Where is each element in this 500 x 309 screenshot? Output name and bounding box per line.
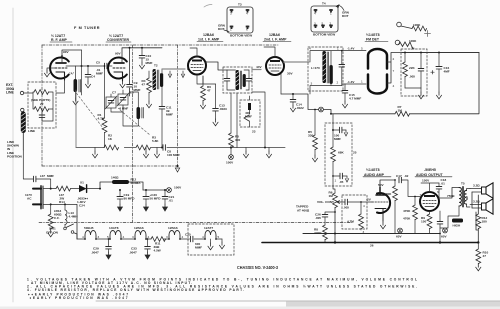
T4 core: [327, 52, 328, 83]
V7 plate bar: [424, 195, 435, 197]
V4 screen stub: [264, 47, 275, 57]
V2 grid dashes: [113, 67, 125, 69]
svg-text:X1: X1: [80, 181, 84, 185]
V1 cathode return wire: [56, 80, 65, 93]
wire plug bottom: [43, 204, 77, 239]
capacitor in matching box: [39, 115, 45, 117]
T2 bottom return wire: [161, 87, 163, 148]
section divider dash-dot x=130: [132, 45, 134, 222]
svg-text:7: 7: [393, 69, 395, 73]
ground stub at x=146: [143, 148, 148, 158]
label V4 12BA6 2nd I.F. AMP: [263, 33, 291, 42]
T5 secondary top wire to speakers: [467, 189, 470, 191]
svg-text:MMF: MMF: [195, 246, 202, 250]
T3 secondary return wire: [252, 92, 265, 148]
chassis dash-dot line y=222.5: [39, 222, 352, 224]
svg-text:LINE: LINE: [6, 91, 14, 95]
svg-text:90V: 90V: [63, 50, 69, 54]
svg-text:2: 2: [337, 81, 339, 85]
wire filter to B+ rail: [129, 182, 143, 190]
svg-text:470K: 470K: [384, 192, 392, 196]
svg-text:5: 5: [322, 22, 324, 26]
svg-text:100K: 100K: [409, 39, 417, 43]
svg-text:4MF: 4MF: [444, 70, 450, 74]
svg-text:22: 22: [40, 102, 44, 106]
V6 cathode: [375, 209, 386, 222]
cathode bypass capacitor: [437, 211, 443, 234]
svg-text:1M: 1M: [329, 194, 334, 198]
V7 cathode: [425, 206, 434, 208]
label -2V and pin 4: [363, 198, 372, 209]
svg-text:LINE: LINE: [28, 129, 35, 133]
svg-text:AUDIO OUTPUT: AUDIO OUTPUT: [416, 173, 444, 177]
B- bus junction dots: [334, 241, 336, 243]
T4 bottom lead to diode: [342, 83, 366, 85]
svg-text:3: 3: [132, 235, 134, 239]
svg-text:100V: 100V: [174, 186, 182, 190]
svg-text:60V: 60V: [441, 235, 447, 239]
sub-box component: [245, 103, 252, 118]
V6 cathode ground: [380, 221, 385, 229]
ground stub at x=246: [243, 148, 248, 158]
capacitor C15 4.7MMF: [342, 84, 361, 108]
svg-text:3: 3: [311, 82, 313, 86]
svg-text:1st. I. F. AMP: 1st. I. F. AMP: [198, 38, 220, 42]
svg-text:.05: .05: [339, 180, 344, 184]
svg-text:30V: 30V: [287, 72, 293, 76]
junction dot rectifier out: [99, 188, 101, 190]
svg-text:C17: C17: [396, 174, 402, 178]
svg-text:4: 4: [309, 47, 311, 51]
svg-text:MMF: MMF: [47, 174, 54, 178]
svg-text:90V: 90V: [115, 52, 121, 56]
heater chain end ground: [219, 239, 224, 249]
antenna terminal upper: [20, 91, 23, 94]
resistor 470K plate load: [384, 179, 397, 233]
label C24 1400V: [77, 197, 88, 208]
svg-text:2: 2: [393, 57, 395, 61]
V1 grid dashes: [55, 67, 67, 69]
svg-text:-50EH5: -50EH5: [424, 168, 436, 172]
svg-text:12BA6: 12BA6: [269, 33, 280, 37]
svg-text:4: 4: [314, 12, 316, 16]
svg-text:HIGH: HIGH: [453, 224, 462, 228]
svg-text:F M TUNER: F M TUNER: [74, 26, 100, 30]
V5 pin 2 wire: [387, 53, 479, 84]
svg-text:68K: 68K: [338, 151, 344, 155]
resistor R2 1K in rail: [104, 134, 119, 150]
resistor 68K: [331, 147, 345, 176]
svg-text:12BA6: 12BA6: [168, 226, 178, 230]
tube V3 1st IF envelope: [188, 57, 206, 75]
svg-text:BOTTOM VIEW: BOTTOM VIEW: [313, 33, 335, 37]
ground stub at x=157: [154, 148, 159, 158]
pot wiper arrow: [337, 201, 341, 204]
power plug blades: [33, 186, 43, 209]
V7 plate to T5: [439, 188, 459, 199]
stray scan mark top left of T3: [204, 5, 212, 8]
T4 tuning capacitor: [339, 50, 345, 86]
svg-text:1: 1: [335, 179, 337, 183]
wire terminal upper to matching box: [24, 92, 33, 94]
svg-text:4: 4: [123, 235, 125, 239]
ground at V1 grid: [44, 70, 49, 77]
audio ground bus: [303, 233, 440, 235]
svg-text:4. FUSIBLE RESISTOR, REPLACE: 4. FUSIBLE RESISTOR, REPLACE ONLY WITH W…: [27, 288, 244, 292]
heater V3 12BA6: [132, 226, 150, 240]
svg-text:4.5W: 4.5W: [154, 249, 161, 253]
wire terminal lower to link coil: [22, 112, 24, 114]
test point 100V on rail: [167, 186, 183, 193]
svg-text:12BA6: 12BA6: [203, 33, 214, 37]
svg-text:3: 3: [230, 12, 232, 16]
svg-text:2: 2: [330, 22, 332, 26]
resistor in matching box upper: [34, 90, 49, 95]
svg-text:100K: 100K: [413, 23, 421, 27]
heater chain wire: [77, 238, 222, 240]
audio coupling dashed box: [342, 195, 367, 229]
T3 return to rail: [236, 93, 238, 148]
junction dots bottom wire: [50, 203, 52, 205]
link coil L1 (bold hatched): [21, 112, 26, 134]
svg-text:-1.3V: -1.3V: [347, 80, 355, 84]
arrow symbol in sub-box: [244, 115, 249, 121]
converter top bus: [122, 48, 162, 96]
V6 plate wire to coupling: [380, 180, 395, 187]
heater center tap ground: [208, 239, 213, 250]
V7 B+ feed from rail: [421, 183, 439, 192]
svg-text:12BA6: 12BA6: [134, 226, 144, 230]
heater V6 14GT8: [107, 226, 125, 240]
T4 grn dot label with arrow: [336, 4, 350, 18]
wire V1 plate up and over to bus: [62, 50, 82, 63]
test point 100V below R5: [226, 148, 234, 165]
resistor R4 47: [142, 71, 152, 108]
capacitor .005: [409, 53, 424, 89]
wire link coil bottom: [22, 133, 24, 150]
svg-text:.0047: .0047: [129, 250, 137, 254]
label LINK SHOWN IN LINE POSITION: [7, 140, 23, 158]
resistor 330 muting divider: [308, 109, 318, 162]
svg-text:100V: 100V: [226, 161, 234, 165]
svg-text:CONVERTER: CONVERTER: [107, 38, 129, 42]
V2 cathode: [114, 72, 123, 81]
resistor 100K 24 diagonal: [399, 39, 418, 51]
svg-text:½14GT8: ½14GT8: [366, 33, 380, 37]
oscillator coil hatched: [137, 107, 144, 119]
svg-text:1: 1: [361, 80, 363, 84]
svg-text:DOT: DOT: [342, 14, 349, 18]
choke L14 4.4MH: [65, 204, 78, 224]
V4 pin dots: [283, 61, 285, 63]
limiter dashed sub-box: [240, 100, 260, 127]
wire RF bus to converter grid: [66, 65, 112, 67]
coil L2 grid coil with core: [74, 79, 81, 92]
svg-text:22K: 22K: [409, 66, 415, 70]
T4 internal wires and pins: [310, 51, 342, 94]
resistor R7 1M line: [331, 53, 479, 114]
test point 60V near pot: [396, 228, 402, 238]
capacitor C33 .0047: [129, 238, 150, 259]
svg-text:.005: .005: [343, 206, 349, 210]
volume pot R6 1M: [317, 191, 337, 243]
svg-text:.0033: .0033: [219, 107, 227, 111]
svg-text:3: 3: [314, 22, 316, 26]
muting dashed box: [325, 123, 352, 186]
svg-text:180: 180: [482, 220, 487, 224]
svg-text:80 MFD: 80 MFD: [124, 197, 136, 201]
capacitor C4: [85, 66, 95, 88]
resistor 470K grid return: [403, 196, 417, 234]
svg-text:140Ω: 140Ω: [111, 176, 119, 180]
small down arrow on grid lead 2: [181, 71, 185, 78]
svg-text:MMF: MMF: [173, 153, 180, 157]
T3 primary coil: [236, 70, 240, 90]
svg-text:4: 4: [363, 204, 365, 208]
capacitor C14 .0022: [290, 94, 304, 112]
fusible resistor R12 140ohm (solid bar): [111, 176, 141, 186]
T4 secondary coil: [329, 65, 332, 84]
svg-text:7: 7: [420, 193, 422, 197]
junction dot x333: [332, 129, 334, 131]
svg-text:T4: T4: [322, 2, 326, 6]
svg-text:4.7 MMF: 4.7 MMF: [349, 97, 361, 101]
svg-text:POSITION: POSITION: [7, 154, 23, 158]
svg-text:½14GT8: ½14GT8: [366, 168, 380, 172]
wire audio bus down to B-: [439, 234, 441, 243]
svg-text:DOT: DOT: [218, 27, 225, 31]
T4 primary coil: [322, 51, 326, 83]
test point 60V: [441, 228, 447, 238]
T5 primary bottom wire: [440, 206, 459, 228]
line bypass capacitor 47MMF: [23, 150, 54, 189]
svg-text:50V: 50V: [378, 183, 384, 187]
svg-text:C4: C4: [91, 75, 95, 79]
svg-text:4.7K: 4.7K: [98, 117, 105, 121]
capacitor C9 10MMF series: [127, 81, 141, 92]
component HIGH (solid): [452, 219, 463, 228]
ground stub at x=269: [266, 148, 271, 158]
resistor R10 47: [476, 243, 489, 271]
label V7 50EH5 AUDIO OUTPUT: [415, 168, 452, 177]
V6 grid dashes: [372, 201, 388, 203]
wire rectifier to filter: [87, 182, 112, 189]
svg-text:MMF: MMF: [166, 113, 173, 117]
svg-text:FM DET: FM DET: [366, 38, 380, 42]
transformer T2 primary coil: [153, 69, 157, 90]
svg-text:.0047: .0047: [91, 250, 99, 254]
svg-text:.02: .02: [404, 174, 409, 178]
capacitor C29 .0047: [91, 238, 111, 259]
svg-text:4: 4: [82, 235, 84, 239]
sub-box wire: [249, 96, 251, 127]
FM tuner dashed enclosure top edge: [42, 44, 278, 46]
svg-text:4: 4: [246, 12, 248, 16]
notes text block: [27, 278, 417, 301]
svg-text:470K: 470K: [403, 209, 411, 213]
svg-text:47: 47: [483, 254, 487, 258]
coupling capacitor C17: [396, 174, 420, 197]
svg-text:47: 47: [207, 89, 211, 93]
muting line continues to volume pot: [333, 176, 335, 193]
svg-text:14GT8: 14GT8: [109, 226, 119, 230]
resistor R7 1M: [395, 105, 410, 116]
V1 cathode: [56, 72, 65, 80]
T3 left capacitor: [224, 70, 235, 90]
speaker bus vertical: [472, 192, 478, 243]
label C5 .01 MMF: [96, 61, 103, 76]
svg-text:3: 3: [98, 235, 100, 239]
svg-text:24: 24: [411, 47, 415, 51]
tube V5 upper diode (bold staple): [368, 49, 387, 69]
tube V2 converter envelope: [108, 57, 127, 78]
svg-text:OFF-ON: OFF-ON: [46, 230, 59, 234]
svg-text:47: 47: [142, 83, 146, 87]
svg-text:VOL. CONT.: VOL. CONT.: [317, 200, 334, 204]
wire test point to muting network: [323, 110, 331, 114]
small down arrow on grid lead 1: [168, 71, 172, 78]
capacitor C8 in rail: [163, 145, 180, 157]
V7 pin dots: [429, 191, 431, 193]
svg-text:MMF: MMF: [146, 61, 153, 65]
svg-text:2nd. I. F. AMP: 2nd. I. F. AMP: [264, 38, 287, 42]
svg-text:750Ω: 750Ω: [447, 194, 455, 198]
T3 secondary coil: [243, 74, 246, 87]
resistor 180 in speaker return: [476, 214, 488, 229]
label EXT 300 ohm line: [6, 83, 15, 95]
B+ rail dots: [162, 189, 164, 191]
svg-text:C25: C25: [185, 233, 191, 237]
label V2 1/2 12AT7 CONVERTER: [106, 34, 131, 42]
wire bus down to L2: [76, 50, 82, 98]
V3 pin dots: [196, 56, 198, 58]
T4 pin numbers: [309, 47, 339, 86]
ground below box: [418, 88, 423, 99]
svg-text:4: 4: [393, 84, 395, 88]
svg-text:26: 26: [370, 244, 374, 248]
transformer T2 secondary coil: [160, 73, 163, 87]
svg-text:4: 4: [182, 235, 184, 239]
detector output line: [281, 94, 319, 110]
capacitor C11 39MMF: [159, 106, 173, 117]
svg-text:3.2Ω: 3.2Ω: [473, 200, 480, 204]
V3 cathode: [193, 70, 201, 72]
section divider dash-dot x=178: [177, 45, 179, 166]
svg-text:50EH5: 50EH5: [84, 226, 94, 230]
wire fuse to rectifier: [70, 188, 79, 190]
detector rail y=52.5: [402, 52, 479, 54]
label V5 1/2 14GT8 FM DET: [365, 33, 388, 42]
wire V2 cathode down to oscillator: [111, 90, 138, 126]
junction dots on RF bus: [81, 65, 83, 67]
tuning gang dashed link line 2: [120, 110, 150, 135]
svg-text:150: 150: [421, 220, 426, 224]
T2 secondary top wire (grid lead, shaded): [162, 69, 185, 73]
V4 cathode: [271, 70, 279, 72]
svg-text:♦47: ♦47: [40, 174, 45, 178]
V4 plate bar: [270, 60, 280, 62]
tube V5 lower diode (bold staple): [368, 75, 387, 94]
svg-text:25: 25: [353, 151, 357, 155]
svg-text:.0022: .0022: [296, 106, 304, 110]
V4 grids dashed: [269, 65, 281, 68]
ground under L2: [73, 98, 78, 105]
tap capacitor C26 .005: [315, 211, 336, 220]
svg-text:100: 100: [167, 153, 172, 157]
capacitor C13 .0033: [213, 84, 227, 126]
speaker upper: [470, 183, 493, 198]
capacitor C18 .01: [436, 178, 446, 198]
svg-text:12AT7: 12AT7: [204, 226, 213, 230]
svg-text:150V: 150V: [422, 179, 430, 183]
tube V4 2nd IF envelope: [266, 57, 284, 75]
resistor R8 220ohm: [314, 217, 327, 243]
resistor 22K: [403, 53, 416, 89]
svg-text:.01: .01: [169, 199, 174, 203]
svg-text:5: 5: [361, 47, 363, 51]
svg-text:6: 6: [246, 28, 248, 32]
svg-text:5.8K: 5.8K: [152, 139, 159, 143]
svg-text:"A": "A": [69, 72, 75, 76]
V3 plate wire to T3: [206, 62, 227, 70]
T3 secondary lead to V4 (shaded): [252, 69, 261, 71]
oscillator trimmer box 2: [117, 91, 134, 111]
rail junction dots: [230, 146, 232, 148]
V3 grids dashed: [191, 65, 203, 68]
svg-text:1: 1: [330, 12, 332, 16]
switch SW1 OFF-ON: [46, 224, 74, 234]
oscillator trimmer box 1: [105, 91, 117, 110]
svg-text:1: 1: [337, 47, 339, 51]
scan page left edge line: [12, 8, 14, 302]
B- heavy bus: [262, 242, 478, 244]
label V3 12BA6 1st I.F. AMP: [197, 33, 223, 42]
svg-text:AT 400Ω: AT 400Ω: [297, 208, 310, 212]
svg-text:3.2Ω: 3.2Ω: [473, 184, 480, 188]
antenna terminal lower: [21, 108, 24, 111]
V7 cathode resistor: [421, 211, 432, 234]
V2 plate: [114, 62, 124, 64]
resistor R1 4.7K: [98, 65, 107, 147]
svg-text:C24: C24: [79, 204, 85, 208]
V5 pin 7 wire: [393, 69, 395, 88]
label TAPPED AT 400ohm: [296, 205, 310, 213]
T5 secondary coil: [464, 191, 466, 205]
top bus junction dots: [129, 47, 131, 49]
FM tuner dashed enclosure bottom edge: [42, 165, 178, 167]
svg-text:.01: .01: [441, 182, 446, 186]
pot terminal circle lower: [395, 40, 400, 45]
B+ rail y=190: [143, 189, 167, 191]
tube V1 RF amp envelope: [50, 57, 69, 78]
speaker lower: [470, 199, 493, 214]
V2 cathode ground: [120, 81, 125, 88]
svg-text:-1.4V: -1.4V: [347, 47, 355, 51]
pot terminal circle upper: [397, 22, 402, 27]
svg-text:R. F. AMP: R. F. AMP: [51, 38, 67, 42]
test point at detector output: [319, 107, 324, 112]
T5 primary coil: [459, 188, 461, 206]
svg-text:44V: 44V: [256, 65, 262, 69]
svg-text:L3: L3: [130, 91, 134, 95]
plus mark: [425, 31, 431, 37]
electrolytic C20 50MFD: [143, 189, 161, 211]
svg-text:4.7M: 4.7M: [347, 220, 354, 224]
V3 plate bar: [192, 60, 202, 62]
svg-text:330: 330: [308, 134, 313, 138]
svg-text:MMF: MMF: [134, 88, 141, 92]
coupling capacitor .005: [341, 199, 372, 209]
